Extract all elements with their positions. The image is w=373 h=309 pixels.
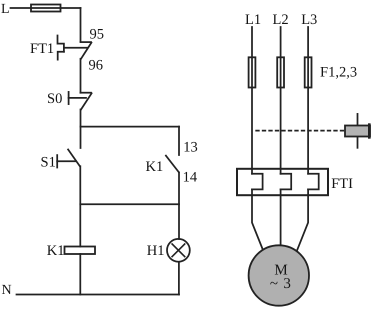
motor M [249,245,309,305]
FT1 NC contact seat [81,41,92,43]
svg-text:L: L [1,2,10,17]
wire phase 2 to motor [280,189,282,245]
svg-text:S1: S1 [41,154,56,170]
FT1 heater element phase 3 [308,174,319,190]
FT1 heater element phase 2 [281,174,292,190]
fuse F2 [277,57,284,87]
svg-text:S0: S0 [47,91,62,107]
svg-text:L3: L3 [301,12,317,28]
wire K1 contact to H1 lamp [178,173,180,240]
wire phase 3 to motor [297,189,308,251]
contact K1 (NO) blade [166,156,179,173]
S0 actuator bar [68,92,70,104]
FT1 thermal actuator hook [58,36,64,52]
pushbutton S1 (NO) blade [68,150,80,167]
thermal relay FT1 body [237,169,328,195]
coil K1 [65,247,96,255]
svg-text:L2: L2 [273,12,289,28]
lamp H1 [167,239,190,262]
svg-text:L1: L1 [245,12,261,28]
svg-text:FTI: FTI [331,176,353,192]
FT1 actuator link [64,47,88,49]
S1 actuator bar [56,155,58,167]
S0 blade [81,93,92,109]
wire junction crossbar [80,203,179,205]
svg-text:96: 96 [89,58,104,74]
contactor actuator K1 (gray box) [357,114,359,148]
svg-text:95: 95 [90,26,105,42]
svg-text:~ 3: ~ 3 [270,276,292,292]
fuse F3 [305,57,312,87]
fuse FU1 [31,5,61,12]
wire L to fuse and to corner [11,7,81,9]
wire phase L3 [307,27,309,174]
wire S1 to junction and K1 coil [79,166,81,246]
svg-text:N: N [2,283,12,298]
wire FT1 to S0 [80,59,82,93]
wire phase L2 [280,27,282,174]
FT1 heater element phase 1 [252,174,263,190]
wire branch to K1 contact [81,126,180,128]
wire H1 to N rail [178,262,180,295]
wire contactor linkage (dashed) [256,130,344,132]
svg-text:FT1: FT1 [30,41,54,57]
pushbutton S0 (NC) seat [81,92,92,94]
svg-text:F1,2,3: F1,2,3 [320,64,357,80]
S0 actuator stem [69,97,86,99]
svg-text:13: 13 [183,140,198,156]
wire vertical down to FT1 contact [80,8,82,42]
wire N rail [17,294,180,296]
fuse F1 [249,57,256,87]
svg-text:K1: K1 [47,243,65,259]
wire phase 1 to motor [252,189,263,249]
wire K1 coil to N rail [79,254,81,295]
S1 actuator stem [57,160,76,162]
svg-text:H1: H1 [147,243,165,259]
svg-text:K1: K1 [146,159,164,175]
wire phase L1 [251,27,253,174]
wire right branch down to K1 contact [178,127,180,155]
wire S0 down to S1 [80,110,82,149]
FT1 NC contact blade [81,43,91,59]
svg-text:14: 14 [183,169,198,185]
